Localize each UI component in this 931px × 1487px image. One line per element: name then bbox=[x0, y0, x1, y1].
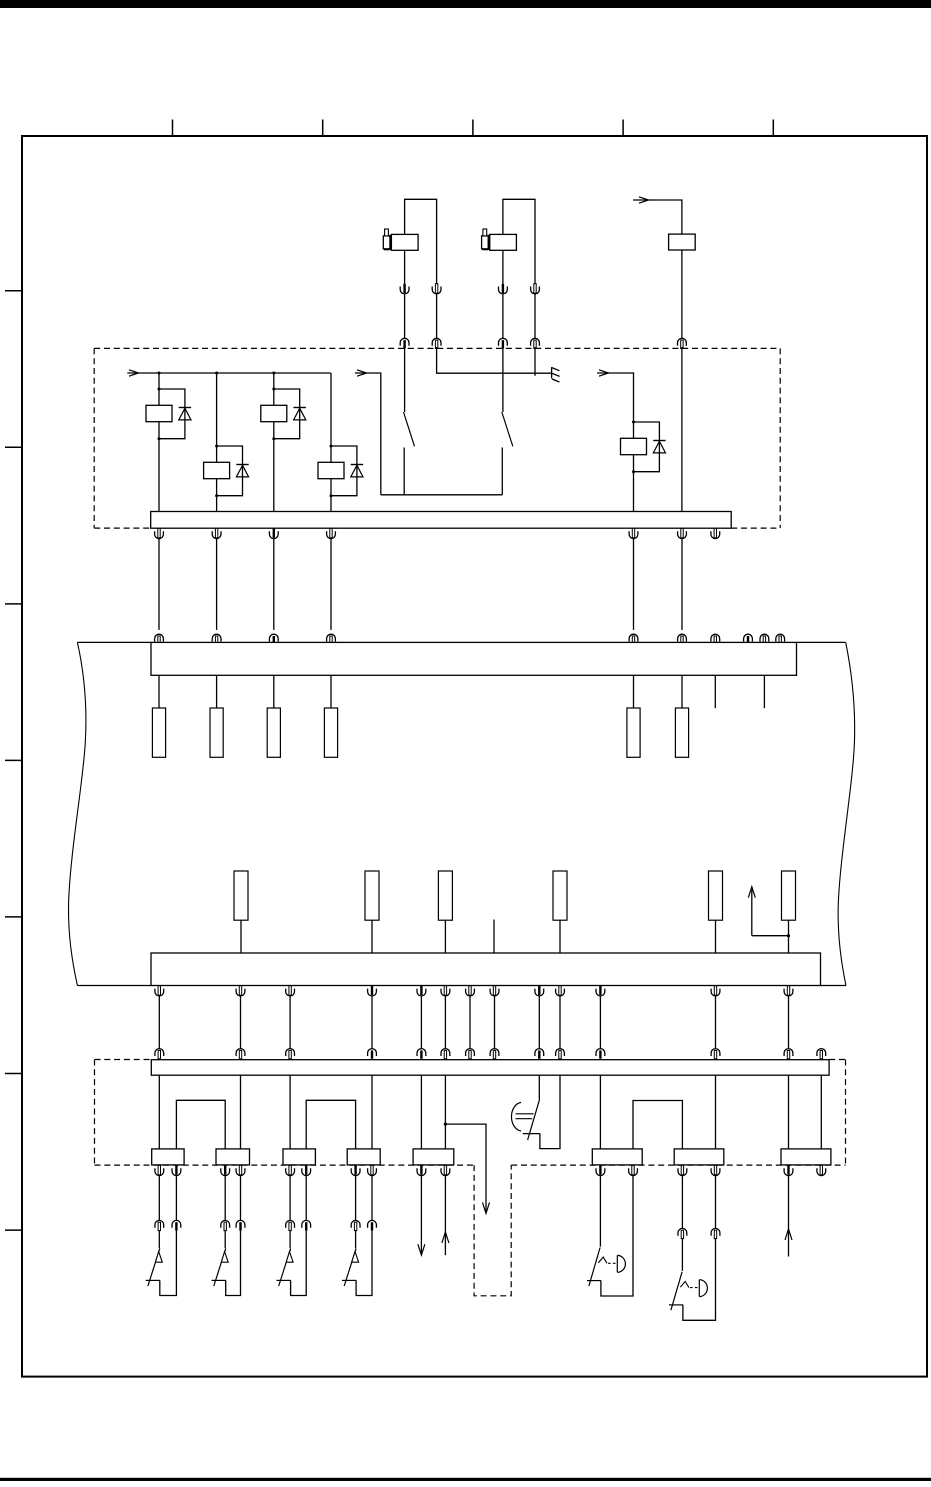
connector pin bar B1 out x=159.0 bbox=[155, 528, 164, 538]
connector pin bar B1 out x=682.0 bbox=[678, 528, 687, 538]
wire plug P3 lead to plug bbox=[289, 1231, 291, 1249]
wire B1 to ECU x=633.5 bbox=[633, 539, 635, 630]
wire B4 to T8 x=821.3 bbox=[820, 1075, 822, 1149]
wire B4 to T5 x=421.4 bbox=[420, 1075, 422, 1149]
wire B3 to B4 x=372.0 bbox=[371, 996, 373, 1049]
connector block T5 bbox=[413, 1149, 454, 1165]
wire plug P2 lead down bbox=[224, 1176, 226, 1221]
connector pin B4 in x=421.4 bbox=[417, 1049, 426, 1059]
cam link cam switch W1 caret bbox=[598, 1257, 607, 1263]
wire injector2 loop bbox=[503, 199, 535, 283]
wire plug P3 return bbox=[291, 1231, 307, 1296]
connector pin block out x=290.1 bbox=[286, 1165, 295, 1175]
fuse F-top x=216.6 bbox=[210, 708, 223, 757]
fuse F-bot x=372.0 bbox=[365, 871, 379, 920]
wire T5 branch to notch bbox=[445, 1124, 486, 1212]
junction relay R4 loop bbox=[330, 445, 333, 498]
wire B3 to B4 x=539.3 bbox=[538, 996, 540, 1049]
dashed box notch bbox=[474, 1165, 511, 1296]
connector pin B4 in x=560.0 bbox=[556, 1049, 565, 1059]
dashed box coil pack top-right bbox=[829, 1059, 845, 1061]
wire B3 to B4 x=470.0 bbox=[469, 996, 471, 1049]
connector pin B4 in x=494.5 bbox=[490, 1049, 499, 1059]
wire relay R4 leg bbox=[330, 373, 332, 512]
connector pin ECU top in x=682.0 bbox=[678, 634, 687, 644]
connector pin cam switch W2 return inline bbox=[711, 1228, 720, 1238]
wire B4 to T1 x=159.3 bbox=[158, 1075, 160, 1149]
connector pin B3 out x=539.3 bbox=[535, 986, 544, 996]
wire cam switch W1 return bbox=[601, 1176, 633, 1296]
wire B3 to B4 x=159.3 bbox=[158, 996, 160, 1049]
wire cam switch W2 return bbox=[683, 1239, 716, 1321]
connector pin bar B1 out x=633.5 bbox=[629, 528, 638, 538]
wire injector2 lead2 drop bbox=[534, 347, 536, 376]
wire plug P1 return bbox=[160, 1231, 177, 1296]
connector pin plug P3 lead inline bbox=[286, 1220, 295, 1230]
connector pin cam switch W2 lead inline bbox=[678, 1228, 687, 1238]
wire switch feed bbox=[355, 373, 381, 495]
spark plug plug P4 ground tick bbox=[342, 1279, 356, 1281]
injector V2 nozzle stub bbox=[483, 229, 487, 236]
injector V1 nozzle stub bbox=[385, 229, 389, 236]
fuse F-bot x=715.5 bbox=[709, 871, 723, 920]
connector pin box1 entry (solenoid V3) bbox=[678, 338, 687, 348]
cam link cam switch W1 dashes bbox=[608, 1262, 615, 1264]
wire solenoid V3 through box1 bbox=[681, 347, 683, 512]
junction relay R2 loop bbox=[215, 445, 218, 498]
wire injector1 loop bbox=[405, 199, 437, 283]
wire B4 to T5 x=445.4 bbox=[444, 1075, 446, 1149]
injector V2 body bbox=[490, 234, 517, 250]
spark plug plug P4 gap triangle bbox=[352, 1252, 359, 1263]
connector pin ECU top in x=633.5 bbox=[629, 634, 638, 644]
connector pin block out x=176.4 bbox=[172, 1165, 181, 1175]
connector pin block out x=159.3 bbox=[155, 1165, 164, 1175]
injector V1 divider bbox=[389, 235, 392, 250]
wire solenoid V3 to box bbox=[681, 250, 683, 338]
wire relay R5 feed bbox=[597, 373, 634, 512]
wire B3 to B4 x=494.5 bbox=[494, 996, 496, 1049]
wire plug P3 lead down bbox=[289, 1176, 291, 1221]
wire switch S1 lower bbox=[403, 448, 405, 495]
connector pin plug P4 return inline bbox=[368, 1220, 377, 1230]
wire B3 to B4 x=290.1 bbox=[289, 996, 291, 1049]
wire plug P4 lead down bbox=[355, 1176, 357, 1221]
ECU top edge left bbox=[77, 641, 151, 643]
connector pin block out x=682.4 bbox=[678, 1165, 687, 1175]
wire plug P1 lead to plug bbox=[158, 1231, 160, 1249]
wire B4 to T4 x=372.0 bbox=[371, 1075, 373, 1149]
connector block T7 bbox=[674, 1149, 724, 1165]
connector block T2 bbox=[216, 1149, 250, 1165]
wire cam switch W2 lead down bbox=[681, 1176, 683, 1229]
connector pin ECU top in x=764.4 bbox=[760, 634, 769, 644]
connector pin ECU top in x=331.0 bbox=[327, 634, 336, 644]
connector pin plug P2 return inline bbox=[236, 1220, 245, 1230]
arrow T8 input up bbox=[785, 1229, 792, 1240]
connector pin B3 out x=372.0 bbox=[368, 986, 377, 996]
wire B3 to B4 x=600.4 bbox=[599, 996, 601, 1049]
diode loop relay R3 bbox=[274, 389, 300, 439]
wire injector1 lead1 to box bbox=[404, 294, 406, 338]
wire fuse to B3 x=372.0 bbox=[371, 920, 373, 953]
switch S2 blade bbox=[502, 412, 513, 446]
connector block T3 bbox=[283, 1149, 315, 1165]
wire plug P2 lead to plug bbox=[224, 1231, 226, 1249]
wire injector2 lead2 to box bbox=[534, 294, 536, 338]
connector pin B4 in x=715.5 bbox=[711, 1049, 720, 1059]
switch cam switch W1 blade bbox=[589, 1248, 600, 1286]
wire B2 to fuse x=682.0 bbox=[681, 675, 683, 708]
spark plug plug P1 gap triangle bbox=[155, 1252, 162, 1263]
switch cam switch W1 contact tick bbox=[587, 1280, 601, 1282]
dashed box relay block right bbox=[779, 348, 781, 528]
fuse F-top x=682.0 bbox=[675, 708, 688, 757]
connector pin B3 out x=788.5 bbox=[784, 986, 793, 996]
wire B3 to B4 x=715.5 bbox=[715, 996, 717, 1049]
connector pin ECU top in x=780.2 bbox=[776, 634, 785, 644]
wire B2 to fuse x=159.0 bbox=[158, 675, 160, 708]
connector pin (injector1 lead 1) bbox=[400, 284, 409, 294]
wire loop T3-T4 bbox=[306, 1100, 355, 1149]
wire B3 to B4 x=560.0 bbox=[559, 996, 561, 1049]
wire injector2 lead1 to box bbox=[502, 294, 504, 338]
connector pin plug P1 return inline bbox=[172, 1220, 181, 1230]
ECU output bus bar B3 bbox=[151, 953, 821, 986]
cam switch link lines bbox=[516, 1114, 534, 1119]
switch cam switch W2 blade bbox=[671, 1272, 682, 1310]
wire loop T1-T2 bbox=[176, 1100, 225, 1149]
connector pin bar B1 out x=715.3 bbox=[711, 528, 720, 538]
connector pin block out x=788.5 bbox=[784, 1165, 793, 1175]
connector pin block out x=445.4 bbox=[441, 1165, 450, 1175]
wire B4 to T2 x=240.5 bbox=[240, 1075, 242, 1149]
wire B4 to T3 x=290.1 bbox=[289, 1075, 291, 1149]
arrow feed to solenoid V3 bbox=[639, 197, 649, 203]
spark plug plug P3 ground tick bbox=[277, 1279, 291, 1281]
wire B4 to T8 x=788.5 bbox=[788, 1075, 790, 1149]
connector pin block out x=355.6 bbox=[351, 1165, 360, 1175]
wire T5 lead right down bbox=[444, 1176, 446, 1256]
coil pack bus bar B4 bbox=[151, 1060, 829, 1076]
wire B2 to fuse x=633.5 bbox=[633, 675, 635, 708]
wire plug P2 return bbox=[226, 1231, 241, 1296]
wire B3 to B4 x=421.4 bbox=[420, 996, 422, 1049]
cam cam switch W2 D symbol bbox=[699, 1280, 707, 1297]
connector pin ECU top in x=715.3 bbox=[711, 634, 720, 644]
wire relay R1 leg bbox=[158, 373, 160, 512]
spark plug plug P1 electrode bbox=[148, 1249, 160, 1286]
spark plug plug P1 ground tick bbox=[146, 1279, 160, 1281]
connector pin B3 out x=445.4 bbox=[441, 986, 450, 996]
connector pin B3 out x=290.1 bbox=[286, 986, 295, 996]
wire switch S2 lower bbox=[501, 448, 503, 495]
connector pin plug P2 lead inline bbox=[221, 1220, 230, 1230]
wire B1 to ECU x=331.0 bbox=[330, 539, 332, 630]
junction relay feed bus bbox=[158, 372, 276, 375]
junction relay R3 loop bbox=[272, 388, 275, 441]
cam switch contact tick bbox=[523, 1133, 540, 1135]
dashed box coil pack bottom-left bbox=[95, 1164, 475, 1166]
dashed box relay block left bbox=[93, 348, 95, 528]
fuse F-top x=159.0 bbox=[152, 708, 165, 757]
connector pin bar B1 out x=273.8 bbox=[269, 528, 278, 538]
injector V2 divider bbox=[488, 235, 491, 250]
injector V1 base mark bbox=[384, 248, 390, 250]
arrow T5 input up bbox=[442, 1232, 449, 1243]
connector pin B4 in x=240.5 bbox=[236, 1049, 245, 1059]
wire B1 to ECU x=682.0 bbox=[681, 539, 683, 630]
connector pin block out x=372.0 bbox=[368, 1165, 377, 1175]
wire fuse to B3 x=445.4 bbox=[444, 920, 446, 953]
wire B2 to fuse x=331.0 bbox=[330, 675, 332, 708]
junction relay R5 loop bbox=[632, 421, 635, 474]
wire injector1 lower lead bbox=[404, 250, 406, 283]
diode loop relay R2 bbox=[217, 446, 243, 496]
wire cam switch W2 lead to switch bbox=[681, 1239, 683, 1271]
connector block T1 bbox=[152, 1149, 184, 1165]
ECU right torn edge bbox=[838, 642, 855, 985]
wire solenoid V3 feed bbox=[633, 200, 682, 234]
connector pin bar B1 out x=216.6 bbox=[212, 528, 221, 538]
switch S1 blade bbox=[404, 412, 415, 446]
connector pin bar B1 out x=331.0 bbox=[327, 528, 336, 538]
wire B2 to fuse x=216.6 bbox=[216, 675, 218, 708]
injector V2 base mark bbox=[482, 248, 488, 250]
connector pin B4 in x=470.0 bbox=[466, 1049, 475, 1059]
spark plug plug P4 electrode bbox=[344, 1249, 356, 1286]
cam switch blade bbox=[528, 1099, 540, 1140]
dashed box coil pack top-left bbox=[95, 1059, 152, 1061]
cam link cam switch W2 caret bbox=[680, 1281, 689, 1287]
wire T8 lead down bbox=[788, 1176, 790, 1257]
connector pin B3 out x=560.0 bbox=[556, 986, 565, 996]
connector pin block out x=715.5 bbox=[711, 1165, 720, 1175]
bus bar B1 (relay block connector) bbox=[151, 512, 732, 529]
connector pin ECU top in x=216.6 bbox=[212, 634, 221, 644]
wire relay feed bus bbox=[127, 372, 330, 374]
wire B1 to ECU x=159.0 bbox=[158, 539, 160, 630]
dashed box coil pack left bbox=[94, 1060, 96, 1166]
arrow feed to relay R5 bbox=[599, 370, 609, 376]
wire injector2 lower lead bbox=[502, 250, 504, 283]
connector pin box1 entry (injector2 lead1) bbox=[499, 338, 508, 348]
connector pin block out x=240.5 bbox=[236, 1165, 245, 1175]
diode relay R3 bbox=[294, 408, 306, 420]
connector block T6 bbox=[592, 1149, 642, 1165]
dashed box coil pack right bbox=[845, 1060, 847, 1166]
stub wire ECU pin x=764 bbox=[763, 675, 765, 708]
relay coil relay R1 bbox=[146, 405, 172, 421]
spark plug plug P2 electrode bbox=[214, 1249, 226, 1286]
spark plug plug P2 ground tick bbox=[212, 1279, 226, 1281]
wire plug P3 return up bbox=[305, 1176, 307, 1221]
connector pin (injector2 lead 2) bbox=[531, 284, 540, 294]
wire internal feed bbox=[752, 935, 789, 937]
solenoid V3 body bbox=[669, 234, 696, 250]
border tick marks top bbox=[173, 120, 774, 137]
diode loop relay R5 bbox=[634, 422, 660, 472]
stub wire ECU pin x=715 bbox=[714, 675, 716, 708]
wire switch S2 upper bbox=[502, 347, 504, 412]
connector pin block out x=633.0 bbox=[629, 1165, 638, 1175]
wire relay R2 leg bbox=[216, 373, 218, 512]
diode relay R1 bbox=[179, 408, 191, 420]
wire cam switch W2 return up bbox=[715, 1176, 717, 1229]
wire injector1 lead2 to box bbox=[436, 294, 438, 338]
spark plug plug P2 gap triangle bbox=[221, 1252, 228, 1263]
wire plug P4 lead to plug bbox=[355, 1231, 357, 1249]
spark plug plug P3 electrode bbox=[279, 1249, 291, 1286]
wire fuse to B3 x=241.0 bbox=[240, 920, 242, 953]
connector pin plug P3 return inline bbox=[302, 1220, 311, 1230]
connector pin B3 out x=240.5 bbox=[236, 986, 245, 996]
wire B2 to fuse x=273.8 bbox=[273, 675, 275, 708]
connector block T8 bbox=[781, 1149, 831, 1165]
junction internal feed bbox=[787, 934, 790, 937]
dashed box coil pack bottom-right bbox=[511, 1164, 845, 1166]
ECU left torn edge bbox=[69, 642, 86, 985]
fuse F-top x=633.5 bbox=[627, 708, 640, 757]
arrow T5 output down bbox=[418, 1244, 425, 1255]
wire relay R3 leg bbox=[273, 373, 275, 512]
spark plug plug P3 gap triangle bbox=[286, 1252, 293, 1263]
cam switch link arc bbox=[511, 1102, 521, 1131]
connector pin block out x=421.4 bbox=[417, 1165, 426, 1175]
connector pin block out x=306.2 bbox=[302, 1165, 311, 1175]
connector pin (injector1 lead 2) bbox=[432, 284, 441, 294]
fuse F-top x=273.8 bbox=[267, 708, 280, 757]
border tick marks left bbox=[5, 291, 22, 1230]
ECU bottom edge left bbox=[77, 985, 151, 987]
wire switch common bbox=[381, 494, 503, 496]
wire B3 to B4 x=445.4 bbox=[444, 996, 446, 1049]
arrow internal feed up bbox=[751, 890, 753, 936]
dashed box relay block top bbox=[94, 347, 780, 349]
connector pin B4 in x=445.4 bbox=[441, 1049, 450, 1059]
arrow feed to relay coils bbox=[129, 370, 139, 376]
fuse F-bot x=445.4 bbox=[438, 871, 452, 920]
cam cam switch W1 D symbol bbox=[617, 1255, 625, 1272]
cam link cam switch W2 dashes bbox=[690, 1287, 697, 1289]
connector pin block out x=225.2 bbox=[221, 1165, 230, 1175]
fuse F-bot x=788.5 bbox=[782, 871, 796, 920]
wire B4 to T6 x=600.4 bbox=[599, 1075, 601, 1149]
fuse F-top x=331.0 bbox=[324, 708, 337, 757]
wire loop T6-T7 bbox=[633, 1101, 682, 1149]
wire B3 to B4 x=240.5 bbox=[240, 996, 242, 1049]
wire cam switch return bbox=[540, 1075, 560, 1148]
wire cam switch W1 lead down bbox=[599, 1176, 601, 1247]
wire switch S1 upper bbox=[404, 347, 406, 412]
relay coil relay R4 bbox=[318, 462, 344, 478]
switch cam switch W2 contact tick bbox=[669, 1304, 683, 1306]
connector pin B4 in x=788.5 bbox=[784, 1049, 793, 1059]
wire ground link bbox=[437, 347, 552, 373]
injector V1 body bbox=[391, 234, 418, 250]
wire B4 to T7 x=715.5 bbox=[715, 1075, 717, 1149]
junction T5 branch bbox=[444, 1123, 447, 1126]
ECU input bus bar B2 bbox=[151, 642, 797, 675]
connector pin B4 in x=600.4 bbox=[596, 1049, 605, 1059]
connector pin B3 out x=159.3 bbox=[155, 986, 164, 996]
wire B1 to ECU x=273.8 bbox=[273, 539, 275, 630]
wire B3 to B4 x=788.5 bbox=[788, 996, 790, 1049]
arrow down notch output bbox=[483, 1202, 490, 1213]
connector pin (injector2 lead 1) bbox=[499, 284, 508, 294]
connector pin B3 out x=715.5 bbox=[711, 986, 720, 996]
connector pin box1 entry (injector1 lead2) bbox=[432, 338, 441, 348]
connector pin ECU top in x=159.0 bbox=[155, 634, 164, 644]
connector pin B3 out x=421.4 bbox=[417, 986, 426, 996]
connector pin B4 in x=821 (spare) bbox=[817, 1049, 826, 1059]
relay coil relay R2 bbox=[204, 462, 230, 478]
wire T5 lead left down bbox=[420, 1176, 422, 1255]
wire cam switch upper bbox=[538, 1075, 540, 1099]
stub wire into B3 x=494 bbox=[493, 920, 495, 954]
connector pin B4 in x=539.3 bbox=[535, 1049, 544, 1059]
wire fuse to B3 x=715.5 bbox=[715, 920, 717, 953]
wire plug P2 return up bbox=[240, 1176, 242, 1221]
injector V2 connector block bbox=[482, 236, 489, 249]
connector pin B3 out x=494.5 bbox=[490, 986, 499, 996]
wire fuse to B3 x=560.0 bbox=[559, 920, 561, 953]
dashed box relay block bottom-left bbox=[94, 527, 151, 529]
connector pin B4 in x=372.0 bbox=[368, 1049, 377, 1059]
connector pin B3 out x=600.4 bbox=[596, 986, 605, 996]
diode relay R4 bbox=[351, 465, 363, 477]
connector pin B4 in x=290.1 bbox=[286, 1049, 295, 1059]
diode loop relay R1 bbox=[159, 389, 185, 439]
ECU bottom edge right bbox=[821, 985, 847, 987]
wire plug P1 lead down bbox=[158, 1176, 160, 1221]
connector pin B3 out x=470.0 bbox=[466, 986, 475, 996]
connector pin block out x=821.3 bbox=[817, 1165, 826, 1175]
wire plug P4 return up bbox=[371, 1176, 373, 1221]
connector pin ECU top in x=273.8 bbox=[269, 634, 278, 644]
wire plug P4 return bbox=[356, 1231, 372, 1296]
ground chassis symbol bbox=[552, 367, 560, 382]
relay coil relay R3 bbox=[261, 405, 287, 421]
connector pin plug P1 lead inline bbox=[155, 1220, 164, 1230]
connector pin B4 in x=159.3 bbox=[155, 1049, 164, 1059]
diode relay R2 bbox=[236, 465, 248, 477]
dashed box relay block bottom-right bbox=[731, 527, 780, 529]
diode loop relay R4 bbox=[331, 446, 357, 496]
wire plug P1 return up bbox=[175, 1176, 177, 1221]
connector pin box1 entry (injector2 lead2) bbox=[531, 338, 540, 348]
wire B1 to ECU x=216.6 bbox=[216, 539, 218, 630]
arrow feed to switches bbox=[357, 370, 367, 376]
diode relay R5 bbox=[653, 441, 665, 453]
connector pin block out x=600.4 bbox=[596, 1165, 605, 1175]
injector V1 connector block bbox=[383, 236, 390, 249]
connector pin plug P4 lead inline bbox=[351, 1220, 360, 1230]
fuse F-bot x=241.0 bbox=[234, 871, 248, 920]
relay coil R5 bbox=[621, 438, 647, 454]
page bottom black rule bbox=[0, 1478, 931, 1481]
junction relay R1 loop bbox=[158, 388, 161, 441]
connector pin box1 entry (injector1 lead1) bbox=[400, 338, 409, 348]
connector block T4 bbox=[347, 1149, 380, 1165]
ECU top edge right bbox=[797, 641, 846, 643]
wire fuse to B3 x=788.5 bbox=[788, 920, 790, 953]
page top black bar bbox=[0, 0, 931, 8]
connector pin ECU top in x=748.0 bbox=[744, 634, 753, 644]
fuse F-bot x=560.0 bbox=[553, 871, 567, 920]
